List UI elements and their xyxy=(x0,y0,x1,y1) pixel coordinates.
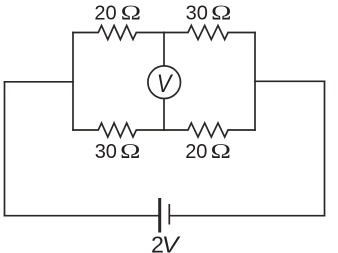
resistor R3 30ohm (bottom-left) with bottom wire xyxy=(73,123,164,137)
wire: bridge left vertical xyxy=(72,33,74,131)
svg-text:20: 20 xyxy=(94,3,116,25)
resistor R1 20ohm (top-left) with top wire xyxy=(73,26,164,40)
wire: right connector node B xyxy=(255,80,325,82)
wire: left connector node A xyxy=(5,81,74,83)
svg-text:Ω: Ω xyxy=(120,140,141,163)
svg-text:Ω: Ω xyxy=(211,2,232,25)
svg-text:Ω: Ω xyxy=(210,140,231,163)
battery B1 long plate (positive) xyxy=(158,198,161,233)
battery B1 short plate (negative) xyxy=(168,204,170,225)
svg-text:20: 20 xyxy=(185,141,207,163)
resistor R4 20ohm (bottom-right) with bottom wire xyxy=(164,123,255,137)
voltmeter U1 circle xyxy=(148,66,181,99)
voltmeter label V xyxy=(157,70,174,97)
label R3 unit ohm xyxy=(120,140,141,163)
wire: bridge right vertical xyxy=(254,33,256,131)
resistor R2 30ohm (top-right) with top wire xyxy=(164,26,255,40)
wire: outer left vertical xyxy=(4,82,6,216)
label R1 unit ohm xyxy=(120,2,141,25)
label R4 unit ohm xyxy=(210,140,231,163)
label R2 unit ohm xyxy=(211,2,232,25)
svg-text:30: 30 xyxy=(186,3,208,25)
svg-text:Ω: Ω xyxy=(120,2,141,25)
svg-text:V: V xyxy=(157,70,174,97)
wire: outer bottom right segment from battery xyxy=(169,215,324,217)
wire: outer right vertical xyxy=(324,81,326,215)
label battery unit V xyxy=(162,232,181,253)
wire: bridge center vertical (voltmeter branch) xyxy=(163,33,165,131)
svg-text:30: 30 xyxy=(95,141,117,163)
svg-text:V: V xyxy=(162,232,181,253)
wire: outer bottom left segment to battery xyxy=(5,215,159,217)
